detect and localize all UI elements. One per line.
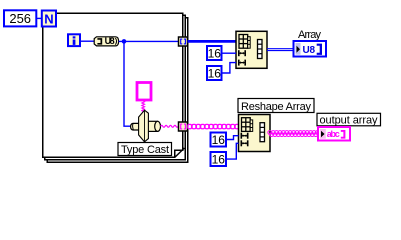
svg-text:Type Cast: Type Cast (121, 144, 169, 156)
indicator terminal output array [abc] (318, 127, 350, 141)
wire 16B to node (222, 63, 237, 73)
wire 256 to N (36, 17, 42, 19)
wire 16D to node (226, 143, 239, 159)
iteration terminal i (68, 34, 80, 46)
string wire type cast to tunnel (wavy) (161, 125, 180, 127)
loop count terminal N (42, 11, 56, 27)
type cast node flange (139, 110, 149, 142)
label Reshape Array (238, 99, 314, 113)
for-loop frame back page F3 (47, 18, 188, 162)
for-loop frame middle page F2 (45, 15, 185, 159)
1D string array wire chain (188, 124, 239, 128)
svg-text:16: 16 (212, 153, 226, 167)
1D array wire tunnel to reshape node (188, 40, 237, 43)
wire 16C to node (226, 136, 239, 140)
svg-text:16: 16 (208, 67, 222, 81)
svg-text:256: 256 (9, 11, 31, 26)
svg-text:U8: U8 (105, 36, 115, 46)
constant 16 D (211, 152, 227, 167)
svg-text:16: 16 (208, 47, 222, 61)
reshape array node upper U2 (236, 31, 267, 68)
wire junction vertical drop (124, 41, 131, 126)
type cast node right rod (146, 121, 161, 131)
wire 16A to node (222, 52, 237, 54)
for-loop frame front page F1 with dog-ear notch (43, 13, 183, 157)
2D array wire node to Array indicator (267, 49, 294, 51)
for-loop fold crease diagonal (175, 148, 184, 157)
type cast node left rod (131, 123, 145, 130)
auto-index tunnel upper [] (179, 37, 188, 46)
svg-text:U8: U8 (303, 45, 316, 56)
svg-text:N: N (44, 11, 53, 26)
svg-text:Array: Array (298, 29, 322, 41)
2D string array wire braid (268, 131, 319, 137)
label output array (317, 113, 381, 126)
constant 256 (4, 10, 36, 26)
conversion node U8 (94, 36, 118, 46)
dimension glyph row2 upper node (238, 60, 246, 66)
wire i to U8 (80, 40, 94, 42)
string constant (empty) (137, 83, 151, 101)
indicator terminal Array [U8] (294, 41, 327, 57)
dimension glyph row1 lower node (241, 133, 249, 139)
wire junction dot (122, 39, 127, 44)
wire U8 to tunnel (119, 40, 179, 42)
svg-text:Reshape Array: Reshape Array (241, 101, 312, 113)
svg-text:abc: abc (327, 129, 340, 139)
label Type Cast (118, 143, 172, 157)
reshape array node lower U3 (239, 115, 271, 152)
svg-text:16: 16 (212, 133, 226, 147)
constant 16 A (207, 46, 222, 61)
auto-index tunnel lower [] (179, 122, 188, 131)
dimension glyph row2 lower node (241, 140, 249, 146)
svg-text:output array: output array (320, 114, 379, 126)
dimension glyph row1 upper node (238, 50, 246, 56)
string wire constant to type cast (vertical wavy) (142, 101, 145, 112)
constant 16 C (211, 133, 227, 148)
constant 16 B (207, 66, 222, 81)
